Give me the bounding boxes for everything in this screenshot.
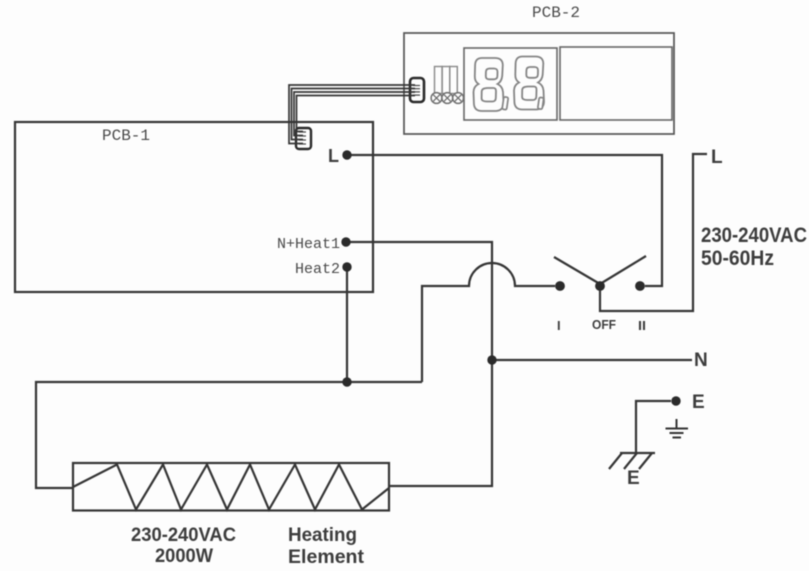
decimal point 2 xyxy=(538,97,544,109)
J1 pin hatches xyxy=(299,132,306,144)
earth symbol small xyxy=(666,419,689,438)
switch contact II xyxy=(635,281,645,291)
ribbon wire bundle J1 to J2 xyxy=(289,85,415,144)
svg-text:N: N xyxy=(694,350,708,371)
terminal dot N+Heat1 xyxy=(341,237,350,246)
svg-text:230-240VAC: 230-240VAC xyxy=(131,525,236,546)
earth wire xyxy=(636,401,671,453)
svg-text:PCB-1: PCB-1 xyxy=(102,127,150,145)
switch blade right xyxy=(600,256,646,284)
switch contact I xyxy=(555,281,565,291)
heating element body xyxy=(73,463,389,511)
svg-text:N+Heat1: N+Heat1 xyxy=(277,236,340,253)
svg-text:2000W: 2000W xyxy=(155,546,213,567)
svg-text:Element: Element xyxy=(288,547,365,568)
J2 pin hatches xyxy=(413,86,420,96)
wire N+Heat1 to heater right xyxy=(346,242,492,486)
switch blade left xyxy=(554,257,600,284)
svg-text:L: L xyxy=(328,146,339,166)
svg-text:E: E xyxy=(627,468,640,489)
svg-text:230-240VAC: 230-240VAC xyxy=(701,224,807,247)
switch pole OFF xyxy=(595,281,605,291)
wire L terminal to switch II xyxy=(347,155,662,286)
wire to switch I with hop over vertical xyxy=(422,263,555,382)
7-segment digit 2 (8) xyxy=(514,57,544,110)
PCB-2 connector J2 xyxy=(410,78,424,102)
3-pin header on PCB-2 xyxy=(435,67,458,94)
PCB-2 right window xyxy=(560,47,672,120)
svg-text:PCB-2: PCB-2 xyxy=(532,4,580,22)
PCB-2 board outline xyxy=(404,33,674,134)
PCB-1 board outline xyxy=(15,122,373,292)
junction Heat2 bus xyxy=(342,377,351,386)
terminal dot Heat2 xyxy=(342,262,351,271)
7-segment digit 1 (8) xyxy=(474,58,504,111)
junction N xyxy=(487,355,496,364)
wire Heat2 down xyxy=(346,267,348,382)
svg-text:Heat2: Heat2 xyxy=(295,261,340,278)
svg-text:OFF: OFF xyxy=(592,317,616,332)
svg-text:Heating: Heating xyxy=(288,525,357,546)
N line xyxy=(492,359,692,361)
heating element coil xyxy=(73,465,389,510)
PCB-2 display window xyxy=(464,48,557,120)
svg-text:I: I xyxy=(557,318,561,333)
PCB-1 connector J1 xyxy=(296,128,311,149)
svg-text:50-60Hz: 50-60Hz xyxy=(701,247,774,270)
terminal dot L xyxy=(342,150,351,159)
wire bottom bus xyxy=(36,382,422,488)
switch OFF pole feed xyxy=(600,154,707,311)
screw terminal circles xyxy=(431,93,463,104)
terminal dot E xyxy=(671,396,680,405)
chassis ground symbol xyxy=(609,453,655,469)
svg-text:L: L xyxy=(711,147,723,168)
svg-text:E: E xyxy=(692,392,705,413)
decimal point 1 xyxy=(502,97,508,110)
svg-text:II: II xyxy=(638,318,646,333)
